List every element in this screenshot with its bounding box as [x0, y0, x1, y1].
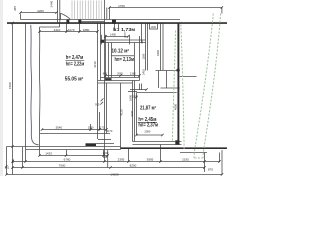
svg-text:hп= 2,22м: hп= 2,22м — [66, 62, 85, 68]
svg-text:2990: 2990 — [145, 130, 151, 134]
svg-text:2410: 2410 — [142, 69, 146, 75]
svg-text:2410: 2410 — [54, 28, 61, 32]
svg-text:875: 875 — [208, 167, 213, 171]
svg-text:845: 845 — [103, 72, 108, 75]
svg-text:385: 385 — [13, 6, 17, 11]
svg-text:55.05 м²: 55.05 м² — [65, 77, 84, 83]
svg-text:h= 1,73м: h= 1,73м — [113, 27, 135, 32]
svg-text:6760: 6760 — [64, 158, 71, 162]
svg-text:10.12 м²: 10.12 м² — [112, 48, 130, 54]
svg-text:14200: 14200 — [110, 172, 119, 176]
svg-text:935: 935 — [95, 102, 100, 106]
svg-text:hп= 2,13м: hп= 2,13м — [115, 57, 135, 63]
svg-text:21,87 м²: 21,87 м² — [140, 106, 156, 112]
svg-text:1700: 1700 — [118, 4, 125, 8]
svg-text:h= 2,47м: h= 2,47м — [66, 55, 84, 61]
svg-text:4120: 4120 — [130, 110, 134, 116]
svg-text:hп= 2,37м: hп= 2,37м — [138, 122, 158, 128]
svg-text:1160: 1160 — [142, 53, 146, 59]
svg-text:2195: 2195 — [182, 158, 189, 162]
svg-text:1400: 1400 — [151, 26, 157, 29]
svg-text:261: 261 — [5, 166, 10, 170]
svg-text:1170: 1170 — [107, 129, 113, 133]
svg-text:1500: 1500 — [8, 82, 12, 89]
svg-text:3995: 3995 — [147, 158, 154, 162]
svg-text:845: 845 — [103, 155, 108, 159]
svg-text:4000: 4000 — [173, 104, 177, 110]
svg-text:1180: 1180 — [88, 126, 94, 130]
svg-text:2160: 2160 — [130, 71, 136, 75]
svg-text:4120: 4120 — [119, 109, 123, 115]
svg-text:8200: 8200 — [130, 164, 137, 168]
svg-text:2065: 2065 — [117, 71, 123, 75]
svg-text:900: 900 — [141, 39, 144, 44]
svg-text:281: 281 — [11, 158, 15, 163]
svg-text:3260: 3260 — [37, 9, 44, 13]
svg-text:1170: 1170 — [99, 126, 105, 130]
svg-text:1400: 1400 — [110, 33, 116, 37]
svg-text:1880: 1880 — [83, 28, 90, 32]
svg-text:1070: 1070 — [124, 32, 127, 38]
svg-text:7000: 7000 — [59, 164, 66, 168]
svg-text:1500: 1500 — [132, 95, 138, 98]
svg-text:1433: 1433 — [45, 152, 52, 156]
svg-text:2440: 2440 — [50, 0, 54, 7]
svg-text:3540: 3540 — [55, 126, 62, 130]
svg-text:2395: 2395 — [118, 158, 125, 162]
svg-text:4130: 4130 — [93, 61, 97, 68]
svg-text:1070: 1070 — [68, 28, 75, 32]
svg-text:1340: 1340 — [103, 151, 109, 155]
svg-text:4440: 4440 — [156, 50, 160, 56]
